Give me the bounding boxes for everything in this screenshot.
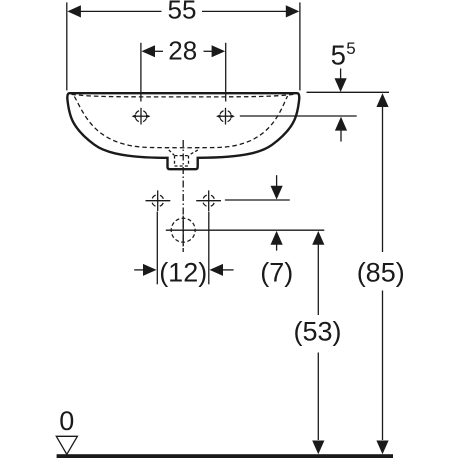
dimension 55 line right segment [202, 10, 288, 12]
dimension 85 line upper segment [376, 93, 388, 252]
dimension 53 line upper segment [312, 231, 324, 315]
dimension 53 line lower segment [312, 353, 324, 455]
label 5.5 [331, 39, 356, 71]
vertical centerline dash-dot [182, 140, 184, 252]
dimension 7 label [260, 258, 293, 288]
dimension 7 down arrow [271, 175, 283, 199]
washbasin inner bowl dashed curve [74, 96, 287, 148]
dimension 55 extension line right [299, 2, 301, 90]
svg-text:55: 55 [168, 0, 197, 24]
dimension 5.5 up arrow [335, 117, 347, 142]
fixing hole level line right [225, 199, 290, 201]
dimension 28 label [168, 35, 197, 65]
tap hole right [216, 108, 235, 125]
svg-text:28: 28 [168, 35, 197, 65]
svg-text:5: 5 [331, 39, 346, 70]
dimension 5.5 down arrow [335, 69, 347, 93]
dimension 28 arrow right [212, 45, 226, 57]
floor line [57, 454, 393, 458]
dimension 55 extension line left [66, 2, 68, 90]
dimension 12 label [159, 258, 207, 288]
washbasin outer outline [67, 93, 299, 169]
drain hole [171, 216, 195, 247]
svg-text:0: 0 [59, 406, 74, 436]
dimension 55 arrow left [67, 5, 81, 17]
dimension 28 extension line left [140, 43, 142, 102]
drain hole level line [166, 229, 324, 231]
dimension 85 label [357, 258, 405, 288]
svg-text:(12): (12) [159, 258, 207, 288]
dimension 12 extension line left [156, 212, 158, 285]
zero level label [59, 406, 74, 436]
dimension 53 label [293, 317, 341, 347]
fixing hole left [146, 190, 171, 211]
dimension 55 label [168, 0, 197, 24]
rim level reference line [307, 91, 390, 93]
dimension 12 arrow right [210, 264, 234, 276]
tap hole level reference line [240, 115, 357, 117]
svg-text:(85): (85) [357, 258, 405, 288]
tap hole left [132, 108, 151, 125]
dimension 7 up arrow [271, 231, 283, 251]
zero level datum triangle [56, 436, 77, 454]
dimension 28 line left segment [154, 50, 163, 52]
dimension 85 line lower segment [376, 291, 388, 455]
dimension 28 arrow left [142, 45, 156, 57]
dimension 55 arrow right [286, 5, 300, 17]
svg-text:(53): (53) [293, 317, 341, 347]
washbasin inner rim dashed line [72, 94, 295, 97]
svg-text:(7): (7) [260, 258, 293, 288]
dimension 55 line left segment [79, 10, 162, 12]
dimension 12 extension line right [208, 212, 210, 285]
drain funnel dashed internals [169, 150, 198, 166]
dimension 28 extension line right [225, 43, 227, 102]
svg-text:5: 5 [346, 39, 355, 58]
dimension 12 arrow left [134, 264, 156, 276]
dimension 28 line right segment [204, 50, 213, 52]
fixing hole right [196, 190, 221, 211]
